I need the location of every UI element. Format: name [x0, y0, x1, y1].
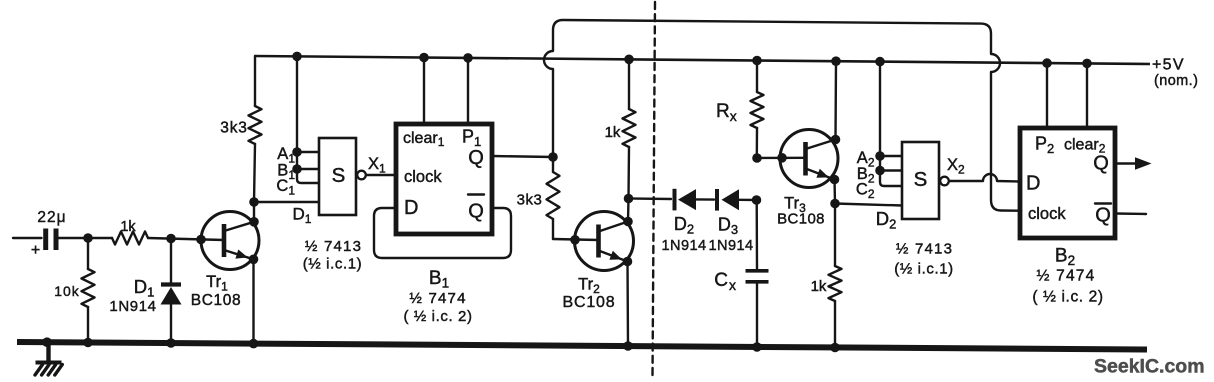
svg-text:BC108: BC108	[777, 211, 825, 228]
wire: Tr3 collector to +5V	[834, 61, 837, 139]
transistor Tr3 BC108	[780, 130, 838, 188]
resistor 3k3 (Tr2 base)	[547, 157, 599, 240]
label 1k (input)	[120, 219, 136, 235]
svg-text:+5V: +5V	[1152, 57, 1185, 74]
wire A2 stub	[880, 155, 902, 157]
dot Tr2 collector	[623, 217, 633, 227]
label BC108 (Tr1)	[191, 292, 241, 309]
wire B1 stub	[297, 168, 319, 170]
dot Tr2 emitter	[623, 257, 633, 267]
svg-text:(½ i.c.1): (½ i.c.1)	[894, 261, 954, 278]
capacitor Cx	[746, 200, 769, 347]
dot 1k rail (Tr2)	[624, 55, 634, 65]
wire: Rx node to Tr3 base	[757, 157, 806, 160]
resistor 1k (input)	[112, 232, 148, 245]
wire: Tr1 emitter to ground	[252, 259, 254, 343]
label 1N914 (D2)	[661, 238, 706, 254]
junction dot timing node	[752, 195, 762, 205]
dot on +5V rail (gate1 tie)	[292, 52, 302, 62]
svg-text:½ 7474: ½ 7474	[409, 290, 466, 307]
ground symbol	[35, 345, 62, 375]
transistor Tr1 BC108	[201, 212, 259, 270]
svg-text:½ 7413: ½ 7413	[305, 238, 362, 255]
svg-text:Q: Q	[468, 201, 484, 223]
label (1/2 i.c. 1) (gate1)	[303, 256, 363, 273]
dot B1 input	[292, 164, 302, 174]
gate U1 (1/2 7413 Schmitt NAND) box	[319, 138, 356, 215]
junction dot Rx/Tr3 base	[752, 153, 762, 163]
label Qbar (B2)	[1095, 204, 1111, 227]
label clock (B2)	[1028, 205, 1066, 223]
wire: Tr2 collector to 1k node	[627, 199, 630, 222]
label 10k	[54, 283, 80, 299]
wire: clear1 to +5V	[423, 58, 425, 125]
label (nom.)	[1154, 73, 1198, 89]
label Tr1	[206, 273, 228, 294]
ground rail (0V bus)	[17, 342, 1147, 350]
label B2	[857, 165, 875, 186]
wire: 1k node to D2	[629, 197, 672, 200]
gate U2 (1/2 7413 Schmitt NAND) box	[902, 142, 939, 219]
label Q (B2)	[1093, 153, 1109, 175]
label C1	[276, 177, 295, 198]
label B1 (flip-flop name)	[429, 268, 449, 291]
dot A2 input	[875, 151, 885, 161]
svg-text:S: S	[332, 164, 346, 187]
label Q (B1)	[468, 147, 484, 169]
node dot (cap/10k/1k)	[83, 233, 93, 243]
label clear1 (B1)	[403, 130, 445, 149]
wire: D2 to D3	[696, 198, 714, 201]
wire: P1 to +5V	[467, 58, 469, 124]
diode D1 (1N914)	[161, 238, 182, 343]
dot clear2 rail	[1082, 59, 1092, 69]
label clear2 (B2)	[1064, 137, 1106, 156]
svg-text:22μ: 22μ	[37, 209, 66, 226]
resistor 3k3 (Tr1 collector load)	[249, 56, 262, 202]
junction dot B1 Q node	[548, 152, 558, 162]
svg-text:SeekIC.com: SeekIC.com	[1094, 356, 1205, 378]
dot Tr3 collector	[831, 135, 841, 145]
dot Tr2 base	[570, 235, 580, 245]
wire: B1 Q output to B2 clock (top feedback run with rail hops)	[544, 20, 1020, 211]
dot Tr3 base	[777, 153, 787, 163]
flip-flop B1 (1/2 7474) box	[396, 124, 492, 234]
wire: +5V to gate1 A/B inputs	[296, 56, 298, 169]
plus sign of 22u	[31, 242, 40, 259]
wire: B1 Q output	[492, 156, 553, 157]
dot P2 rail	[1042, 58, 1052, 68]
svg-text:½ 7413: ½ 7413	[896, 241, 953, 258]
wire: +5V to gate2 A/B inputs	[879, 62, 881, 171]
dot Rx rail	[752, 56, 762, 66]
wire: X2 to B2 D input (hops clock line)	[949, 174, 1020, 182]
dot on +5V rail (gate2 tie)	[875, 57, 885, 67]
label D1	[134, 276, 155, 300]
wire: 1k to Tr1 base	[148, 238, 224, 240]
wire: P2 to +5V	[1046, 63, 1048, 128]
diode D3 (1N914)	[717, 189, 739, 211]
svg-text:( ½ i.c. 2): ( ½ i.c. 2)	[1032, 289, 1103, 306]
svg-text:1k: 1k	[120, 219, 136, 235]
junction dot Tr3 emitter node	[830, 199, 840, 209]
dot Tr1 base	[196, 235, 206, 245]
label 1/2 7413 (gate2)	[896, 241, 953, 258]
wire: X1 to B1 clock	[367, 174, 397, 176]
label A2	[857, 149, 875, 170]
dot A1 input	[292, 147, 302, 157]
label C2	[856, 181, 875, 202]
wire: Tr3 emitter node to gate2 D input	[835, 204, 902, 206]
svg-text:Q: Q	[1095, 205, 1111, 227]
dot Tr1 emitter	[249, 254, 259, 264]
junction dot (D1 node)	[166, 234, 176, 244]
wire C2 tie (L-bend)	[880, 171, 902, 187]
resistor 1k (Tr3 emitter)	[829, 204, 842, 348]
label D2 (gate2 input)	[876, 208, 897, 232]
label D3	[718, 215, 738, 238]
label 22u	[37, 209, 66, 226]
transistor Tr2 BC108	[575, 212, 634, 271]
label D (B1)	[404, 197, 418, 219]
junction dot Tr2 collector node	[624, 194, 634, 204]
dot 1k/ground (Tr3)	[830, 343, 840, 353]
label +5V	[1152, 57, 1185, 74]
dot B2 input	[875, 166, 885, 176]
wire: B2 Q output with arrow	[1115, 157, 1152, 169]
dot Tr1 collector	[249, 217, 259, 227]
label BC108 (Tr2)	[563, 294, 616, 311]
wire: clear2 to +5V	[1086, 63, 1088, 128]
label Cx	[714, 270, 736, 293]
label clock (B1)	[404, 168, 442, 186]
label Tr2	[578, 276, 600, 297]
svg-text:(½ i.c.1): (½ i.c.1)	[303, 256, 363, 273]
label (1/2 i.c.1) (gate2)	[894, 261, 954, 278]
label A1	[277, 145, 295, 166]
label B1	[277, 162, 295, 183]
svg-text:½ 7474: ½ 7474	[1037, 268, 1096, 285]
wire: Tr3 emitter down	[833, 180, 836, 204]
svg-text:Q: Q	[1093, 153, 1109, 175]
wire C1 tie (L-bend)	[297, 169, 319, 183]
svg-text:clock: clock	[1028, 205, 1066, 223]
svg-text:C: C	[714, 270, 728, 291]
svg-text:3k3: 3k3	[517, 192, 543, 209]
wire: cap to node	[58, 237, 112, 239]
label BC108 (Tr3)	[777, 211, 825, 228]
label Rx	[716, 101, 737, 124]
wire: B1 D to Qbar loop	[374, 208, 511, 258]
dot clear1 rail	[419, 53, 429, 63]
wire: D3 to timing node	[739, 199, 757, 202]
svg-text:(nom.): (nom.)	[1154, 73, 1198, 89]
label P1 (B1)	[462, 127, 481, 150]
label 1k (Tr2 load)	[605, 124, 621, 141]
dot Tr3 collector rail	[831, 56, 841, 66]
gate1 output bubble	[357, 171, 366, 180]
svg-text:+: +	[31, 242, 40, 259]
label 1N914 (D1)	[109, 298, 156, 315]
label 1/2 7474 (B1)	[409, 290, 466, 307]
svg-text:1N914: 1N914	[708, 238, 753, 254]
junction dot collector/D-input	[249, 197, 259, 207]
wire A1 stub	[297, 151, 319, 153]
dot Tr1 emitter/ground	[249, 339, 259, 349]
input wire	[13, 237, 42, 239]
label B2 (flip-flop name)	[1055, 246, 1075, 269]
resistor 1k (Tr2 collector load)	[623, 59, 636, 198]
label 1k (Tr3 emitter)	[811, 278, 827, 295]
ground rail dot left	[42, 337, 52, 347]
label 1N914 (D3)	[708, 238, 753, 254]
svg-text:BC108: BC108	[191, 292, 241, 309]
wire: Tr1 collector up	[253, 202, 255, 222]
dot D1/ground	[166, 338, 176, 348]
wire: B2 Qbar output	[1115, 212, 1146, 215]
dashed divider line	[653, 2, 656, 376]
dot P1 rail	[463, 53, 473, 63]
svg-text:clock: clock	[404, 168, 442, 186]
wire B2 stub	[880, 169, 902, 171]
svg-text:1N914: 1N914	[109, 298, 156, 315]
label X1	[368, 155, 386, 176]
label D (B2)	[1026, 173, 1040, 195]
wire: collector node to gate1 D input	[254, 201, 319, 203]
label D1 (gate1 input)	[293, 205, 312, 227]
svg-text:x: x	[729, 277, 736, 293]
gate2 output bubble	[940, 177, 949, 186]
SeekIC.com watermark	[1094, 356, 1205, 378]
wire: Tr2 emitter to ground	[626, 262, 629, 347]
svg-text:1N914: 1N914	[661, 238, 706, 254]
junction dot 10k/ground	[83, 338, 93, 348]
label Qbar (B1)	[468, 195, 484, 223]
svg-text:BC108: BC108	[563, 294, 616, 311]
dot Tr3 emitter	[830, 175, 840, 185]
label 1/2 7474 (B2)	[1037, 268, 1096, 285]
capacitor 22u plates	[46, 229, 56, 251]
svg-text:D: D	[1026, 173, 1040, 195]
label 3k3 (first)	[220, 120, 247, 137]
+5V supply rail	[255, 56, 1150, 64]
svg-text:3k3: 3k3	[220, 120, 247, 137]
svg-text:Q: Q	[468, 147, 484, 169]
label 3k3 (second)	[517, 192, 543, 209]
resistor 10k	[82, 238, 95, 343]
svg-text:S: S	[914, 168, 928, 191]
svg-text:1k: 1k	[605, 124, 621, 141]
svg-text:( ½ i.c. 2): ( ½ i.c. 2)	[403, 308, 472, 325]
label (1/2 i.c. 2) (B2)	[1032, 289, 1103, 306]
diode D2 (1N914)	[675, 189, 697, 211]
dot Tr2 emitter/ground	[623, 341, 633, 351]
label P2 (B2)	[1035, 134, 1054, 157]
label Tr3	[784, 195, 806, 216]
dot Cx/ground	[752, 342, 762, 352]
svg-text:10k: 10k	[54, 283, 80, 299]
label (1/2 i.c. 2) (B1)	[403, 308, 472, 325]
flip-flop B2 (1/2 7474) box	[1020, 128, 1115, 238]
label X2	[947, 156, 965, 177]
label D2	[674, 214, 694, 237]
resistor Rx	[751, 61, 764, 159]
svg-text:1k: 1k	[811, 278, 827, 295]
label 1/2 7413 (gate1)	[305, 238, 362, 255]
svg-text:D: D	[404, 197, 418, 219]
